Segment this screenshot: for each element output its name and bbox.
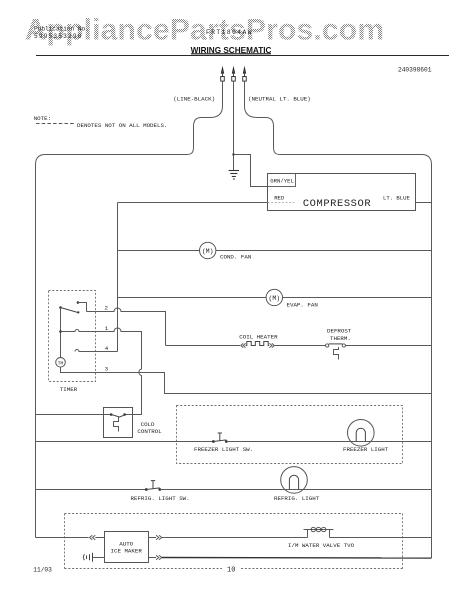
svg-text:GRN/YEL: GRN/YEL: [270, 177, 294, 184]
wire compressor rung right: [416, 202, 432, 204]
header rule: [36, 55, 449, 57]
svg-text:(M): (M): [269, 295, 281, 302]
cold control switch: [104, 413, 133, 431]
wire evap fan rung: [118, 297, 432, 299]
plug prong right: [243, 66, 247, 81]
node ground junction: [232, 153, 234, 155]
ground symbol: [229, 171, 239, 180]
svg-text:REFRIG. LIGHT SW.: REFRIG. LIGHT SW.: [131, 495, 190, 502]
motor cond fan: [200, 242, 216, 258]
svg-text:ICE MAKER: ICE MAKER: [111, 547, 143, 554]
freezer light switch: [212, 433, 228, 443]
svg-text:EVAP. FAN: EVAP. FAN: [287, 302, 319, 309]
svg-text:FREEZER LIGHT SW.: FREEZER LIGHT SW.: [194, 446, 253, 453]
wire ground center: [233, 81, 235, 170]
svg-text:Publication No.: Publication No.: [34, 26, 89, 33]
svg-text:THERM.: THERM.: [330, 335, 351, 342]
svg-text:240398601: 240398601: [398, 67, 432, 74]
wire ice maker top right: [149, 537, 308, 539]
timer switch blade: [61, 308, 80, 314]
label cold control: [137, 421, 162, 435]
connector chevrons ice maker top left: [90, 535, 96, 540]
cold control box: [104, 408, 133, 438]
svg-text:TM: TM: [58, 360, 64, 366]
svg-text:RED: RED: [274, 194, 285, 201]
wire inner rail: [117, 203, 119, 352]
lamp refrig light: [281, 467, 308, 494]
connector chevrons ice maker bottom right: [156, 555, 162, 560]
svg-text:COND. FAN: COND. FAN: [220, 253, 252, 260]
wire cold control feed from left rail: [36, 414, 104, 416]
wire freezer rung right: [226, 441, 431, 443]
watermark AppliancePartsPros.com: [25, 14, 385, 47]
svg-text:CONTROL: CONTROL: [137, 428, 162, 435]
wire terminal 3: [61, 367, 432, 393]
wire terminal 1: [61, 328, 142, 415]
compressor U1 box: [268, 174, 416, 211]
ice maker ground: [83, 553, 104, 562]
note text: [34, 115, 168, 129]
timer contact 2 stub: [77, 301, 87, 311]
svg-text:1: 1: [105, 325, 109, 332]
svg-text:4: 4: [105, 345, 109, 352]
defrost thermostat: [326, 344, 346, 360]
svg-text:5995353290: 5995353290: [34, 33, 83, 40]
wire refrig rung left: [36, 489, 147, 491]
svg-text:TIMER: TIMER: [60, 386, 78, 393]
freezer section dashed box: [177, 406, 403, 464]
auto ice maker box: [105, 532, 149, 563]
label auto ice maker: [111, 540, 143, 554]
svg-text:3: 3: [105, 365, 109, 372]
svg-text:(NEUTRAL LT. BLUE): (NEUTRAL LT. BLUE): [248, 95, 311, 102]
plug prong left: [221, 66, 225, 81]
part number 240398601: [398, 67, 432, 74]
connector chevrons heater left: [241, 343, 246, 347]
timer motor TM: [56, 358, 66, 368]
wire terminal 4: [75, 350, 118, 352]
timer box: [49, 291, 96, 382]
wire ice maker bottom to right rail: [149, 557, 432, 560]
wire valve to right rail: [330, 537, 432, 539]
motor evap fan: [266, 289, 282, 305]
wire line-black left rail: [36, 81, 223, 537]
wire compressor rung left: [118, 202, 268, 204]
wire neutral right rail: [245, 81, 432, 558]
svg-text:COIL HEATER: COIL HEATER: [239, 333, 278, 340]
svg-text:REFRIG. LIGHT: REFRIG. LIGHT: [274, 495, 320, 502]
svg-text:LT. BLUE: LT. BLUE: [383, 195, 410, 202]
label defrost therm: [327, 328, 352, 342]
wire ice maker top from rail: [36, 537, 89, 539]
svg-text:2: 2: [105, 305, 109, 312]
svg-text:COLD: COLD: [141, 421, 155, 428]
wire defrost therm to right rail: [345, 345, 431, 347]
svg-text:10: 10: [227, 567, 235, 575]
svg-text:DEFROST: DEFROST: [327, 328, 352, 335]
svg-text:(M): (M): [202, 248, 214, 255]
connector chevrons ice maker top right: [156, 535, 162, 540]
svg-text:FREEZER LIGHT: FREEZER LIGHT: [343, 446, 389, 453]
model number text: [206, 29, 253, 36]
plug prong middle: [232, 66, 236, 81]
connector chevrons heater right: [270, 343, 275, 347]
wire to ice maker box: [95, 537, 104, 539]
node timer common: [59, 330, 62, 333]
svg-text:(LINE-BLACK): (LINE-BLACK): [173, 95, 215, 102]
title WIRING SCHEMATIC: [191, 46, 272, 55]
wire refrig rung right: [160, 489, 432, 491]
wire grn/yel to compressor: [234, 155, 268, 187]
svg-text:NOTE:: NOTE:: [34, 115, 51, 122]
wire red stub inside box: [268, 202, 295, 204]
svg-text:I/M WATER VALVE TVO: I/M WATER VALVE TVO: [288, 542, 355, 549]
wire coil heater rung left: [166, 345, 241, 347]
water valve coil: [304, 527, 334, 537]
svg-text:AUTO: AUTO: [119, 540, 133, 547]
wire cond fan rung: [118, 250, 432, 252]
svg-text:11/03: 11/03: [33, 566, 52, 573]
wire timer common: [60, 308, 62, 358]
wire heater to defrost therm: [274, 345, 325, 347]
lamp freezer light: [348, 420, 375, 447]
ice maker section dashed box: [65, 514, 403, 569]
publication number text: [34, 26, 89, 40]
timer pivot node: [59, 306, 62, 309]
refrig light switch: [145, 481, 161, 491]
resistor coil heater: [246, 342, 270, 346]
wire terminal 2: [87, 308, 166, 345]
svg-text:COMPRESSOR: COMPRESSOR: [303, 198, 371, 210]
svg-text:FRT18G4AW: FRT18G4AW: [206, 29, 253, 36]
svg-text:DENOTES NOT ON ALL MODELS.: DENOTES NOT ON ALL MODELS.: [77, 122, 167, 129]
wire freezer rung left: [36, 441, 214, 443]
